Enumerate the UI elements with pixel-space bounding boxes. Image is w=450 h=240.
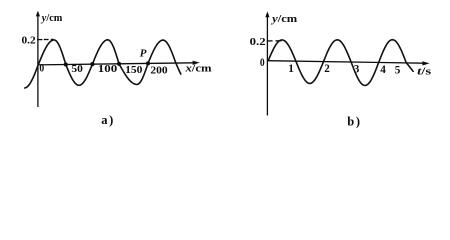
y-axis arrowhead [36,11,40,17]
svg-text:2: 2 [324,63,330,75]
svg-text:b): b) [347,115,361,129]
node dot x=150 [117,62,121,66]
svg-text:a): a) [101,113,115,127]
wave curve (t-graph) [268,40,413,86]
svg-text:0.2: 0.2 [250,36,267,48]
tick 0.2 [267,40,273,42]
svg-text:0: 0 [39,63,44,75]
svg-text:50: 50 [71,63,83,75]
svg-text:0: 0 [260,57,265,69]
svg-text:0.2: 0.2 [22,35,37,47]
y-axis arrowhead [265,11,269,17]
svg-text:200: 200 [150,64,167,76]
x-axis [38,63,195,65]
x-axis arrowhead [422,61,429,65]
svg-text:P: P [140,48,147,60]
y-axis [37,16,39,107]
wave curve (x-graph) [25,40,181,88]
x-axis [267,61,424,64]
svg-text:150: 150 [125,64,142,76]
dash to first crest [276,40,282,42]
node dot x=100 [90,62,94,66]
y-axis [266,17,268,116]
svg-text:1: 1 [288,63,294,75]
svg-text:x/cm: x/cm [184,64,212,75]
svg-text:5: 5 [395,65,401,77]
dashed guide to first crest [44,38,54,40]
svg-text:3: 3 [354,64,360,76]
tick 0.2 [37,39,42,41]
svg-text:4: 4 [380,64,386,76]
svg-text:t/s: t/s [417,66,432,78]
node dot x=50 [64,62,68,66]
svg-text:100: 100 [98,63,118,75]
svg-text:y/cm: y/cm [40,13,63,24]
node dot x=200 (P) [146,61,150,65]
svg-text:y/cm: y/cm [270,14,298,25]
x-axis arrowhead [193,61,200,65]
